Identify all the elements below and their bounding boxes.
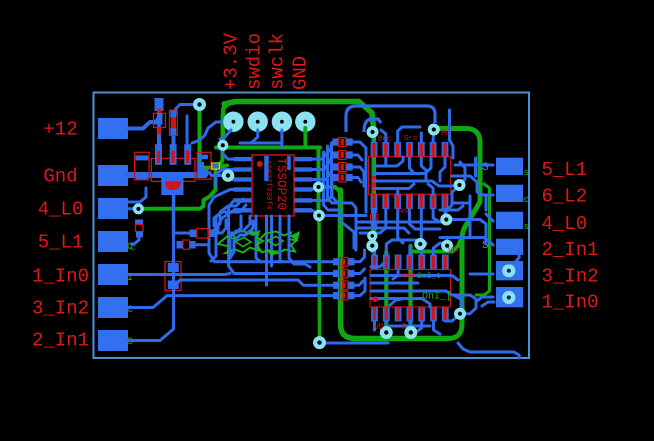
via v3 [222, 169, 235, 182]
resistor RA2 outline [339, 151, 346, 160]
via v6 [313, 210, 325, 222]
svg-text:VD: VD [374, 323, 384, 332]
wire RA3 right [352, 167, 364, 186]
svg-text:c: c [524, 195, 529, 205]
wire green via5 branch [319, 187, 341, 192]
wire U1 R3 out [312, 167, 333, 180]
wire U3 B1 down [373, 209, 376, 222]
wire U1 L6 bundle3 [218, 210, 240, 232]
pad 1_In0 right [496, 287, 523, 307]
wire mid vert3 [332, 143, 337, 201]
pad U1 L1 [234, 157, 253, 161]
wire green horiz y209 [140, 206, 204, 209]
wire U1 bot v4 [279, 216, 282, 262]
wire u3 left vert [365, 158, 368, 212]
wire U4 T4 up [408, 247, 411, 255]
resistor RB2 outline [340, 269, 348, 278]
wire p7 up [127, 249, 174, 341]
wire via17 r5 [460, 297, 493, 314]
pad U4 T3 mark [397, 256, 400, 269]
wire U1 L5 bundle2 [229, 200, 333, 273]
via v17 [454, 308, 466, 320]
via v9 [428, 124, 440, 136]
wire via7 right [321, 342, 388, 345]
wire bundle left c [214, 199, 243, 230]
pad U4 T6 [430, 255, 437, 270]
wire tab vert cont [172, 233, 175, 264]
wire via3 left [208, 172, 223, 176]
pad 5_L1 [98, 231, 128, 252]
resistor R2 outline [169, 110, 177, 135]
pad D1 mark top [157, 109, 161, 113]
pad RB3 a [333, 282, 340, 289]
pad U4 B2 mark [385, 308, 388, 321]
pad U1 L4 [234, 187, 253, 191]
op-amp U3 outline [369, 157, 451, 195]
pad Gnd [98, 165, 128, 186]
pad 5_L1 right [496, 158, 523, 175]
pad RB1 b [348, 258, 355, 265]
pad U4 B5 mark [420, 308, 423, 321]
wire U3 inner h3 [374, 181, 455, 186]
wire via12 up [371, 246, 374, 252]
wire green U4 vertical A [384, 252, 388, 331]
wire p5 bus [127, 274, 230, 275]
pad Q1 leg3 [184, 144, 191, 165]
wire U1 bot v0 [230, 216, 241, 233]
pad U3 T6 mark [432, 143, 435, 157]
resistor RB4 bar [342, 293, 345, 299]
wire hdr1 stub [220, 130, 231, 139]
pad U4 T4 mark [408, 256, 411, 269]
pad C2 top [198, 155, 208, 160]
pad RB3 b [348, 282, 355, 289]
svg-text:Src: Src [404, 135, 418, 143]
pad Rb a [177, 241, 184, 249]
pad U3 T7 mark [443, 143, 446, 157]
pad R11 a [333, 151, 340, 158]
svg-text:OnI_[: OnI_[ [422, 291, 452, 303]
pad 4_L0 right [496, 212, 523, 229]
wire RA4 right [352, 178, 361, 183]
resistor RA1 bar [341, 139, 344, 145]
pad U4 T7 mark [444, 256, 447, 269]
via v7 [313, 336, 326, 349]
wire U4 inner h4 [371, 299, 430, 308]
svg-text:4_L0: 4_L0 [542, 213, 588, 235]
wire green vertical x216 [204, 168, 216, 206]
wire swd arc A [346, 106, 435, 132]
pad 2_In1 right [496, 239, 523, 255]
wire U4 B2 via15 [385, 321, 388, 330]
pad U3 B1 [371, 194, 378, 210]
wire green U1 right drop [317, 148, 321, 214]
wire mid vert 216 [211, 218, 216, 261]
pad U3 B7 [442, 194, 449, 210]
wire U4 T2 up [386, 240, 426, 255]
pad U1 L6 [234, 208, 253, 212]
wire green U4 top link [411, 236, 463, 252]
wire U4 B7 via17 [445, 316, 458, 321]
pad 3_In2 right [496, 261, 523, 280]
pad U3 T3 mark [396, 143, 399, 157]
pad U4 B6 [430, 307, 437, 322]
pad RB4 b [348, 292, 355, 299]
pad R10 a [333, 138, 340, 145]
pad 4_L0 [98, 198, 128, 219]
via v4 [133, 203, 144, 214]
pad U3 B6 mark [432, 195, 435, 209]
wire r4 in [440, 238, 493, 246]
pad U4 B6 mark [432, 308, 435, 321]
wire tab to Ra [174, 232, 191, 235]
via v1 [193, 98, 206, 111]
pad U4 B4 [407, 307, 414, 322]
svg-text:S: S [127, 337, 133, 348]
wire U3 B3 down [398, 209, 403, 243]
pad RB4 a [333, 292, 340, 299]
wire green yellowbox link [216, 166, 227, 168]
pad 3_In2 [98, 297, 128, 318]
wire U3 B4 down [410, 209, 441, 229]
svg-text:GND: GND [290, 56, 312, 90]
capacitor C1 outline [135, 152, 150, 180]
via v2 [217, 140, 228, 151]
pad U3 B2 mark [384, 195, 387, 209]
resistor RB2 bar [342, 271, 345, 277]
wire via13 link [419, 240, 422, 244]
pad C3 top [135, 220, 143, 225]
wire U1 bot v1 [256, 216, 261, 262]
wire U1 L4 bundle1 [209, 190, 333, 262]
svg-text:s: s [524, 168, 529, 178]
wire r1 in [455, 164, 493, 167]
wire U1 L2 out [229, 168, 235, 171]
pad Q1 leg2 mark [172, 151, 175, 164]
pad U4 B7 [442, 307, 449, 322]
wire green gnd drop [303, 128, 307, 148]
pad RD1 b [371, 223, 377, 231]
wire Ra right [216, 220, 227, 233]
pad hdr swdio [248, 112, 268, 132]
pad U1 R1 [294, 157, 312, 161]
wire green U4 vertical B [408, 246, 412, 331]
wire hdr2 down [244, 130, 258, 143]
ratsnest fin3 [290, 231, 300, 242]
svg-text:+12: +12 [43, 119, 77, 141]
pad D2 top [168, 263, 179, 272]
wire v10 up [460, 162, 466, 185]
wire gnd bar [128, 172, 205, 178]
silk U1 pin1 dot [257, 161, 263, 167]
resistor Rb outline [183, 240, 190, 249]
pad U3 T2 [382, 142, 389, 158]
wire green top bus 3.3V [224, 102, 374, 129]
pad U4 T2 [383, 255, 390, 270]
pad RB2 a [333, 270, 340, 277]
pad U1 R2 [294, 167, 312, 171]
wire U4 inner bl [390, 299, 404, 306]
silk dot U3 left [371, 186, 376, 191]
resistor RD1 outline [370, 215, 377, 224]
wire green swdio drop [223, 102, 230, 145]
via v14 [441, 240, 453, 252]
pad U3 T5 mark [420, 143, 423, 157]
wire bundle left b [230, 216, 250, 258]
pad U3 T4 mark [408, 143, 411, 157]
pad U3 T2 mark [384, 143, 387, 157]
wire mid vert2 [328, 146, 357, 250]
wire D2 down bus [174, 280, 333, 287]
wire U1 inner v2 [287, 156, 291, 170]
pad R2 top [170, 111, 176, 118]
pad U1 L5 [234, 198, 253, 202]
wire p6 bus [127, 296, 333, 308]
wire U3 inner s4 [421, 158, 426, 181]
pad U3 B4 [406, 194, 413, 210]
wire via6 right [319, 214, 366, 217]
wire U1 L2 long [216, 170, 234, 187]
svg-text:1_In0: 1_In0 [542, 292, 599, 314]
pad RB1 a [333, 258, 340, 265]
pad R13 a [333, 174, 340, 181]
wire U4 inner tl [393, 270, 398, 279]
wire RB3 right [355, 281, 364, 285]
wire right vert b [474, 158, 477, 176]
pad U4 T1 [371, 255, 378, 270]
resistor RA4 bar [341, 175, 344, 181]
resistor RA1 outline [339, 138, 346, 147]
pad U4 T2 mark [385, 256, 388, 269]
wire U1 R2 out [312, 155, 333, 170]
pad Q1 leg2 [170, 144, 177, 165]
pad U3 B6 [430, 194, 437, 210]
svg-text:5_L1: 5_L1 [542, 159, 588, 181]
pad Q1 leg1 [155, 144, 162, 165]
wire mid vert1 [324, 152, 341, 210]
pad U3 B5 mark [420, 195, 423, 209]
op-amp U1 outline [252, 155, 294, 216]
wire hdr link2 [240, 142, 281, 145]
wire tab down [172, 194, 176, 233]
svg-text:VD: VD [448, 247, 458, 256]
wire green Ph branch [438, 129, 480, 203]
wire U4 T6 up [434, 243, 446, 255]
wire U1 L3 out [226, 178, 234, 181]
via v8 [367, 126, 379, 138]
wire p3 area [128, 188, 146, 202]
via v15 [380, 326, 393, 339]
wire U3 B5 down [420, 209, 423, 238]
pad 1_In0 [98, 264, 128, 285]
pad U1 R4 [294, 187, 312, 191]
pad U3 T7 [442, 142, 449, 158]
svg-text:3_In2: 3_In2 [32, 298, 89, 320]
wire U4 T1 up [373, 248, 376, 255]
pad U1 L3 [234, 177, 253, 181]
pad hdr swclk [272, 112, 292, 132]
wire U1 L1 out [222, 153, 234, 159]
pad U4 B3 [395, 307, 402, 322]
wire C3 down [132, 237, 140, 244]
pad R13 b [346, 174, 353, 181]
resistor Ra outline [197, 229, 209, 239]
diode D2 outline [165, 262, 181, 291]
pad Q1 leg1 mark [157, 151, 160, 164]
pad U3 B3 [394, 194, 401, 210]
wire u3 row h2 [356, 228, 409, 233]
pad U3 B5 [418, 194, 425, 210]
wire vert right0 [448, 112, 451, 140]
svg-text:Ph: Ph [441, 129, 451, 138]
wire U1 R1 out [312, 142, 333, 159]
wire bigpad1 to via2 [192, 122, 234, 143]
wire mid diag [340, 221, 354, 248]
wire swd arc B [364, 119, 381, 132]
wire u4 bot h [390, 325, 430, 328]
pad U3 T1 mark [372, 143, 375, 157]
wire r3 in [486, 214, 493, 221]
pad U4 T7 [442, 255, 449, 270]
wire U3 B6 down [433, 209, 445, 222]
pad D2 bottom [168, 281, 179, 290]
wire via11 left [446, 220, 486, 245]
wire U3 B7 down [445, 209, 452, 219]
wire U3 B2 down [360, 209, 386, 233]
wire green jog to row [219, 145, 223, 166]
wire U1 R4 via5 [312, 187, 316, 190]
pad D1 mark bot [157, 128, 161, 135]
wire U4 T5 up [422, 243, 426, 255]
pad hdr +3.3V [223, 112, 243, 132]
wire r2 in [452, 176, 493, 195]
pad +12 [98, 118, 128, 139]
resistor RB1 outline [340, 257, 348, 266]
ratsnest fin2 [266, 250, 279, 257]
pad U3 T5 [418, 142, 425, 158]
svg-text:P: P [402, 323, 407, 332]
pad C1 top [135, 155, 148, 160]
diode D1 body [154, 113, 160, 122]
pad C3 bottom [136, 232, 143, 238]
wire green U3 left vertical [372, 130, 377, 246]
via v11 [440, 214, 452, 226]
svg-text:nest: nest [396, 208, 413, 216]
pad R12 b [346, 163, 353, 170]
pad U4 T1 mark [373, 256, 376, 269]
resistor R2 body [171, 117, 176, 128]
wire RB1 right [355, 250, 365, 262]
pad Ra b [209, 230, 216, 238]
pad 2_In1 [98, 330, 128, 351]
silk Q1 tab mark [165, 181, 180, 190]
pad U4 T5 [418, 255, 425, 270]
capacitor C2 outline [197, 152, 211, 179]
wire U4 B1 down [373, 321, 376, 330]
ratsnest squiggle B [258, 232, 297, 254]
wire U1 R5 out [312, 180, 332, 200]
wire bundle left d [230, 221, 253, 258]
pad U4 T4 [407, 255, 414, 270]
wire via10 S [446, 186, 459, 217]
pad U3 B3 mark [396, 195, 399, 209]
resistor RB3 outline [340, 281, 348, 290]
wire U3 T5 up [420, 133, 423, 142]
wire r5 in [470, 273, 493, 276]
pad R2 bottom [170, 128, 176, 136]
svg-text:SoI_t: SoI_t [417, 272, 441, 281]
svg-text:Gnd: Gnd [43, 166, 77, 188]
pad U4 B4 mark [408, 308, 411, 321]
ratsnest fin1 [244, 228, 256, 234]
wire via1 to R2 [176, 105, 198, 114]
svg-text:1_In0: 1_In0 [32, 266, 89, 288]
svg-text:6_L2: 6_L2 [542, 185, 588, 207]
board outline [94, 93, 530, 359]
wire U4 inner h1 [371, 276, 458, 281]
pad U3 B4 mark [408, 195, 411, 209]
svg-text:TSSOP20: TSSOP20 [274, 158, 288, 211]
pad U4 B1 [371, 307, 378, 322]
pad R12 a [333, 163, 340, 170]
silk U4 dot [372, 296, 378, 302]
wire U3 inner h2 [374, 158, 431, 174]
svg-text:5_L1: 5_L1 [38, 232, 84, 254]
wire U1 bot v5 [289, 216, 310, 267]
via v10 [454, 179, 466, 191]
wire r4 down [498, 252, 519, 263]
pad RD1 a [371, 206, 377, 214]
resistor RD1 body [372, 216, 377, 221]
wire U1 bot v3 [270, 216, 273, 266]
via v16 [404, 326, 417, 339]
ratsnest fin4 [222, 250, 235, 255]
pad U4 T6 mark [432, 256, 435, 269]
wire right h y203 [452, 202, 470, 205]
wire green above U1 [216, 146, 320, 150]
ratsnest squiggle A [218, 231, 263, 253]
wire via14 link [446, 240, 449, 246]
via v13 [414, 238, 426, 250]
svg-text:+3.3V: +3.3V [221, 32, 243, 90]
pad U4 T3 [395, 255, 402, 270]
ratsnest squiggle B inner [268, 237, 284, 246]
wire green via1 drop [200, 105, 217, 169]
wire U3 inner s1 [384, 158, 387, 166]
wire U3 inner h4 [374, 184, 414, 189]
pad U1 R5 [294, 198, 312, 202]
pad U3 B7 mark [443, 195, 446, 209]
resistor RB1 bar [342, 259, 345, 265]
pad C2 elbow [201, 162, 208, 172]
pad U3 T4 [406, 142, 413, 158]
via v12 [366, 240, 378, 252]
wire U3 inner s2 [396, 189, 399, 195]
svg-text:stm32f030f4: stm32f030f4 [264, 160, 272, 210]
resistor RB3 bar [342, 282, 345, 288]
wire U3 inner s3 [410, 158, 415, 174]
pad U1 R3 [294, 177, 312, 181]
wire bottom right [458, 343, 520, 358]
pad U4 B7 mark [444, 308, 447, 321]
wire U4 B5 down [416, 321, 422, 332]
pad U1 L2 [234, 167, 253, 171]
resistor RA3 bar [341, 164, 344, 170]
silk bar U3 left [371, 176, 376, 187]
pad Ra a [190, 230, 197, 238]
pad Rb b [189, 241, 196, 249]
wire Rb right [195, 243, 209, 246]
